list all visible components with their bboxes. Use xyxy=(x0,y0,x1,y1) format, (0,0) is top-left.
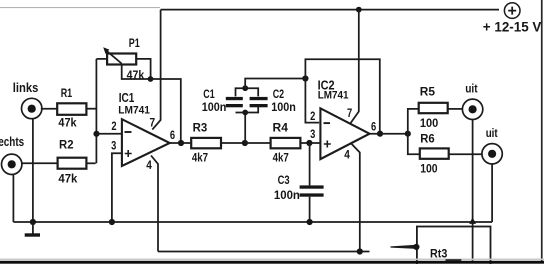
svg-text:3: 3 xyxy=(111,138,116,152)
svg-text:4: 4 xyxy=(146,158,152,172)
resistor R5 xyxy=(419,103,448,113)
resistor R1 xyxy=(57,103,86,115)
op-amp IC2 plus input mark xyxy=(324,141,331,148)
trimmer Rt3 wiper arrow xyxy=(469,217,476,224)
wire P1 right lead down xyxy=(136,59,150,79)
wire R2 to node line xyxy=(86,162,95,164)
wire IC1 pin 3 to ground xyxy=(112,153,122,222)
svg-text:100: 100 xyxy=(420,116,439,130)
wire uit lower jack ground drop xyxy=(491,164,493,222)
svg-text:3: 3 xyxy=(310,127,315,141)
wire IC1 pin 7 xyxy=(152,10,160,130)
wire IC2 output xyxy=(370,133,408,135)
wire node C to IC2 pin 3 xyxy=(309,142,320,144)
wire capacitor bottom bus xyxy=(236,106,259,112)
resistor R2 xyxy=(58,158,87,169)
op-amp IC1 plus input mark xyxy=(125,150,132,157)
potentiometer P1 body xyxy=(107,54,136,65)
wire R1 to node line xyxy=(87,108,97,110)
node A summing junction xyxy=(93,131,99,137)
svg-text:R1: R1 xyxy=(61,86,73,100)
trimmer Rt3 box xyxy=(417,227,491,264)
svg-text:100n: 100n xyxy=(202,100,227,114)
node ground IC1 pin3 junction xyxy=(109,219,115,225)
svg-text:R3: R3 xyxy=(193,121,208,135)
svg-text:Rt3: Rt3 xyxy=(430,246,448,260)
node output split junction xyxy=(405,131,411,137)
svg-text:47k: 47k xyxy=(127,68,145,82)
svg-text:R5: R5 xyxy=(420,85,436,99)
wire R5 to uit jack xyxy=(448,108,463,110)
svg-text:R4: R4 xyxy=(273,121,289,135)
svg-text:7: 7 xyxy=(347,106,352,120)
svg-text:LM741: LM741 xyxy=(318,90,349,102)
svg-text:uit: uit xyxy=(486,126,498,140)
border bottom black bar xyxy=(0,259,544,261)
wire P1 left lead xyxy=(96,58,107,60)
wire IC2 pin 7 xyxy=(350,10,359,124)
connector uit lower jack xyxy=(482,144,502,164)
node B filter junction xyxy=(242,140,248,146)
node IC2 output junction xyxy=(377,131,383,137)
svg-text:IC1: IC1 xyxy=(119,91,135,105)
node P1 feedback junction xyxy=(148,76,154,82)
svg-text:links: links xyxy=(13,81,39,95)
op-amp IC1 triangle xyxy=(122,119,170,166)
connector rechts input jack xyxy=(2,154,22,174)
node IC1 output junction xyxy=(178,140,184,146)
op-amp IC2 triangle xyxy=(320,108,369,159)
svg-text:R6: R6 xyxy=(420,132,435,146)
wire rechts jack to ground rail xyxy=(12,174,14,222)
svg-text:LM741: LM741 xyxy=(118,104,150,116)
wire capacitor bank to node D xyxy=(245,79,305,89)
svg-text:+ 12-15 V: + 12-15 V xyxy=(483,18,542,34)
resistor R3 xyxy=(191,138,221,148)
svg-text:47k: 47k xyxy=(58,116,76,130)
wire node A to IC1 pin 2 xyxy=(97,133,122,135)
svg-text:4k7: 4k7 xyxy=(273,151,289,165)
node capacitor bottom bus junction xyxy=(242,110,248,116)
wire R6 to uit jack xyxy=(449,153,483,155)
wire uit upper jack ground drop xyxy=(472,119,474,261)
svg-text:4k7: 4k7 xyxy=(192,151,208,165)
wire negative rail IC1/IC2 pin4 xyxy=(158,251,370,253)
wire top supply rail xyxy=(161,9,499,11)
wire R4 to node C xyxy=(300,142,309,144)
resistor R6 xyxy=(420,148,449,158)
op-amp IC1 minus input mark xyxy=(125,131,132,133)
svg-text:rechts: rechts xyxy=(0,135,24,149)
border right black line xyxy=(541,0,543,261)
node C IC2 pin3 junction xyxy=(306,140,312,146)
op-amp IC2 minus input mark xyxy=(324,122,331,124)
svg-text:4: 4 xyxy=(344,147,350,161)
wire node B to capacitor bank xyxy=(244,113,246,144)
resistor R4 xyxy=(271,138,301,148)
node ground C3 junction xyxy=(307,219,313,225)
node pin4 rail junction xyxy=(357,248,363,254)
wire IC2 pin 4 xyxy=(351,144,360,252)
svg-text:2: 2 xyxy=(310,109,315,123)
wire stub to Rt3 xyxy=(391,245,417,249)
node ground links junction xyxy=(30,219,36,225)
wire IC1 pin 4 xyxy=(151,156,158,252)
svg-text:6: 6 xyxy=(170,128,175,142)
border top gray line xyxy=(0,7,160,8)
svg-text:2: 2 xyxy=(111,119,116,133)
wire links jack to ground rail xyxy=(32,118,34,222)
wire node B to R4 xyxy=(245,142,271,144)
wire links to R1 xyxy=(41,108,58,110)
capacitor C2 xyxy=(250,97,268,107)
svg-text:C3: C3 xyxy=(278,173,290,187)
wire P1 wiper lead loop xyxy=(122,64,151,79)
svg-text:6: 6 xyxy=(371,120,376,134)
potentiometer P1 wiper arrow xyxy=(103,47,121,63)
node supply rail / IC2 pin7 junction xyxy=(356,7,362,13)
svg-text:R2: R2 xyxy=(59,138,74,152)
wire R3 to node B xyxy=(221,142,245,144)
wire IC1 output to R3 xyxy=(170,142,192,144)
wire to R5 xyxy=(408,109,419,134)
node capacitor top bus junction xyxy=(242,85,248,91)
partial component at bottom edge xyxy=(446,259,462,261)
node D feedback junction xyxy=(302,75,308,81)
svg-text:7: 7 xyxy=(150,116,156,130)
capacitor C1 xyxy=(226,97,243,107)
svg-text:100n: 100n xyxy=(271,100,296,114)
svg-text:100: 100 xyxy=(420,162,438,176)
connector uit upper jack xyxy=(462,99,482,119)
wire feedback to IC1 output xyxy=(151,79,181,143)
wire IC2 feedback loop xyxy=(305,59,379,134)
svg-text:P1: P1 xyxy=(129,36,140,50)
power symbol + terminal xyxy=(504,3,520,19)
wire ground rail xyxy=(13,221,492,223)
wire node D to IC2 pin 2 xyxy=(305,79,319,123)
connector links input jack xyxy=(22,98,42,118)
wire rechts to R2 xyxy=(21,162,57,164)
ground symbol xyxy=(25,222,40,237)
wire capacitor top bus xyxy=(236,88,259,96)
capacitor C3 xyxy=(300,143,324,222)
svg-text:47k: 47k xyxy=(58,171,77,185)
svg-text:100n: 100n xyxy=(274,188,300,202)
wire to R6 xyxy=(408,134,420,155)
svg-text:uit: uit xyxy=(465,82,477,96)
node Rt3 stub junction xyxy=(413,244,419,250)
wire summing node vertical P1-R1-R2 xyxy=(95,59,97,163)
